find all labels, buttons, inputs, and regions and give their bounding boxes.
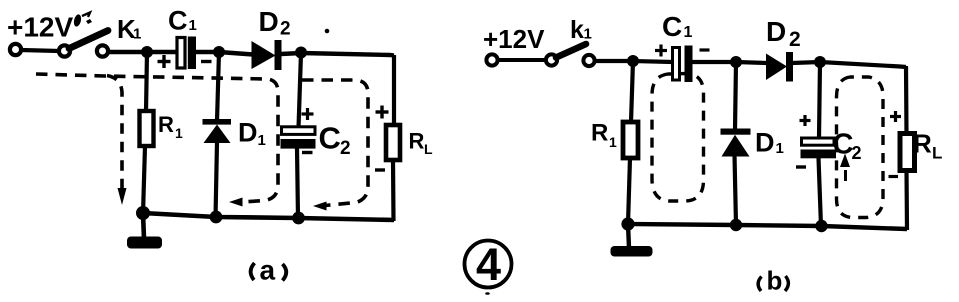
wire node C2n to top-right corner (b) xyxy=(820,62,906,67)
wire D2 to node C (a) xyxy=(281,53,301,54)
node C junction (a) xyxy=(295,47,307,59)
resistor R1 (a) xyxy=(140,111,154,146)
label D2 (b) xyxy=(766,16,801,51)
label RL (a) xyxy=(409,129,434,158)
wire node A1 down to R1 (a) xyxy=(146,52,147,112)
svg-text:D: D xyxy=(766,16,786,47)
svg-text:C: C xyxy=(168,6,188,36)
wire C1 to node B2 (b) xyxy=(693,60,737,64)
label D1 (a) xyxy=(238,118,266,150)
svg-text:1: 1 xyxy=(776,140,784,157)
switch K1 lever (a) xyxy=(69,31,108,49)
diode D1 (a) xyxy=(203,119,232,143)
svg-text:4: 4 xyxy=(476,239,501,290)
wire node C to top-right corner (a) xyxy=(301,53,394,56)
resistor RL (a) xyxy=(386,125,400,160)
label C2 (a) xyxy=(319,121,351,160)
resistor RL (b) xyxy=(900,134,915,171)
label D2 (a) xyxy=(259,6,291,40)
wire right side down to RL (a) xyxy=(392,55,396,126)
wire terminal1-terminal2 (b) xyxy=(497,58,546,62)
diode D2 (b) xyxy=(766,52,793,82)
RL minus sign (b) xyxy=(889,175,899,178)
wire node C down to C2 (a) xyxy=(299,53,302,128)
wire R1 to ground node (b) xyxy=(628,158,630,224)
switch k1 terminal 3 (b) xyxy=(583,55,594,66)
wire R1 to ground node (a) xyxy=(143,146,145,214)
label RL (b) xyxy=(913,129,942,163)
C1 plus sign (b) xyxy=(655,45,667,57)
svg-text:a: a xyxy=(260,255,276,286)
speck near top middle xyxy=(325,29,330,34)
C2 minus sign (b) xyxy=(796,165,806,168)
capacitor C1 (a) xyxy=(177,37,196,70)
svg-text:1: 1 xyxy=(684,24,693,41)
node C2n junction (b) xyxy=(814,56,826,68)
C2 minus sign (a) xyxy=(302,151,313,154)
label +12V (a) xyxy=(7,12,73,43)
ground node junction (a) xyxy=(136,206,150,220)
rail junction at C2 (a) xyxy=(292,212,305,225)
dashed arrowhead left middle loop (a) xyxy=(229,198,243,207)
RL plus sign (a) xyxy=(376,106,389,119)
capacitor C1 (b) xyxy=(673,46,693,83)
C2 plus sign (b) xyxy=(800,115,811,126)
bottom rail (a) xyxy=(143,213,394,220)
svg-text:L: L xyxy=(424,141,433,157)
svg-text:D: D xyxy=(238,118,258,148)
svg-text:k: k xyxy=(570,16,584,44)
dashed loop around C2 and RL (b) xyxy=(837,77,884,218)
C1 minus sign (b) xyxy=(700,48,710,51)
label C1 (a) xyxy=(168,6,197,36)
ground (a) xyxy=(127,237,162,249)
capacitor C2 (a) xyxy=(281,127,316,149)
svg-text:2: 2 xyxy=(789,28,801,51)
wire C2 to bottom rail (b) xyxy=(819,158,822,226)
switch K1 terminal 1 (a) xyxy=(10,44,21,55)
svg-text:C: C xyxy=(662,11,682,42)
dashed current path main horizontal (a) xyxy=(36,74,278,202)
svg-text:R: R xyxy=(913,129,932,159)
C1 plus sign (a) xyxy=(158,55,171,68)
svg-text:2: 2 xyxy=(280,19,291,40)
capacitor C2 (b) xyxy=(801,138,837,158)
wire C1 to node B1 (a) xyxy=(196,50,219,54)
wire RL to bottom-right corner (a) xyxy=(391,160,396,221)
dashed loop around C1 (b) xyxy=(652,74,704,202)
wire node B2 down to D1 (b) xyxy=(735,62,736,130)
wire right side down to RL (b) xyxy=(904,66,909,134)
svg-text:+12V: +12V xyxy=(7,12,73,43)
svg-text:1: 1 xyxy=(189,17,197,34)
node B1 junction (a) xyxy=(213,46,225,58)
switch k1 terminal 1 (b) xyxy=(486,54,497,65)
ground node junction (b) xyxy=(621,217,634,230)
label R1 (a) xyxy=(158,112,183,141)
wire terminal1-terminal2 (a) xyxy=(21,50,59,51)
wire node B2 to D2 (b) xyxy=(736,62,767,63)
wire C2 to bottom rail (a) xyxy=(297,148,298,218)
switch K1 terminal 2 (a) xyxy=(59,45,70,56)
label C1 (b) xyxy=(662,11,693,42)
C2 plus sign (a) xyxy=(302,108,314,120)
diode D1 (b) xyxy=(721,129,751,157)
switch K1 terminal 3 (a) xyxy=(97,45,108,56)
dashed branch down with arrow (a) xyxy=(107,76,122,194)
node A2 junction (b) xyxy=(627,55,639,67)
speck below circle xyxy=(485,292,490,295)
label +12V (b) xyxy=(483,24,545,54)
label D1 (b) xyxy=(755,128,784,158)
node A1 junction (a) xyxy=(141,46,153,58)
svg-text:2: 2 xyxy=(340,138,351,159)
wire node A2 to C1 (b) xyxy=(633,61,673,62)
svg-text:D: D xyxy=(755,128,775,158)
C1 minus sign (a) xyxy=(201,60,212,63)
svg-text:1: 1 xyxy=(584,26,592,43)
ground (b) xyxy=(611,246,653,257)
wire node A1 to C1 (a) xyxy=(147,50,177,54)
dashed up arrow beside C2 (b) xyxy=(840,154,850,182)
wire D2 to node C2n (b) xyxy=(792,62,820,63)
svg-text:L: L xyxy=(932,144,942,163)
svg-text:R: R xyxy=(158,112,174,137)
label k1 (b) xyxy=(570,16,592,44)
label K1 (a) xyxy=(117,14,141,44)
label C2 (b) xyxy=(833,129,862,164)
wire node B1 down to D1 (a) xyxy=(217,52,219,121)
handwritten scribble above switch (a) xyxy=(73,13,92,28)
switch k1 lever (b) xyxy=(556,44,586,58)
resistor R1 (b) xyxy=(623,122,638,158)
bottom rail (b) xyxy=(628,224,907,229)
svg-text:R: R xyxy=(409,129,425,154)
wire RL to bottom-right corner (b) xyxy=(904,170,909,230)
wire D1 to bottom rail (a) xyxy=(216,142,218,218)
dashed loop around C2 and RL (a) xyxy=(302,80,368,206)
rail junction at D1 (b) xyxy=(730,219,742,231)
svg-text:R: R xyxy=(591,120,608,147)
ground stub (a) xyxy=(143,213,144,239)
svg-text:1: 1 xyxy=(175,125,183,141)
RL plus sign (b) xyxy=(890,111,901,122)
svg-text:b: b xyxy=(767,266,783,296)
rail junction at C2 (b) xyxy=(815,220,827,232)
svg-text:D: D xyxy=(259,6,279,37)
svg-text:C: C xyxy=(319,121,341,156)
dashed arrowhead down (a) xyxy=(118,188,127,205)
diode D2 (a) xyxy=(252,40,282,70)
node B2 junction (b) xyxy=(730,56,742,68)
svg-text:1: 1 xyxy=(133,26,141,43)
ground stub (b) xyxy=(628,224,629,248)
wire node B1 to D2 (a) xyxy=(219,52,253,55)
svg-text:1: 1 xyxy=(258,132,266,149)
wire terminal3 to node A2 (b) xyxy=(594,59,633,63)
wire terminal3 to node A1 (a) xyxy=(108,50,147,54)
wire node C2n down to C2 (b) xyxy=(819,62,820,138)
svg-text:1: 1 xyxy=(609,134,617,150)
circled figure number 4 xyxy=(465,239,512,290)
caption (a) xyxy=(251,255,287,286)
svg-text:2: 2 xyxy=(852,143,862,163)
RL minus sign (a) xyxy=(375,168,385,171)
label R1 (b) xyxy=(591,120,617,151)
rail junction at D1 (a) xyxy=(210,211,223,224)
switch k1 terminal 2 (b) xyxy=(546,54,557,65)
svg-text:+12V: +12V xyxy=(483,24,545,54)
caption (b) xyxy=(758,266,788,296)
wire node A2 down to R1 (b) xyxy=(631,61,633,122)
wire D1 to bottom rail (b) xyxy=(735,155,737,225)
dashed arrowhead left right loop (a) xyxy=(313,202,327,211)
